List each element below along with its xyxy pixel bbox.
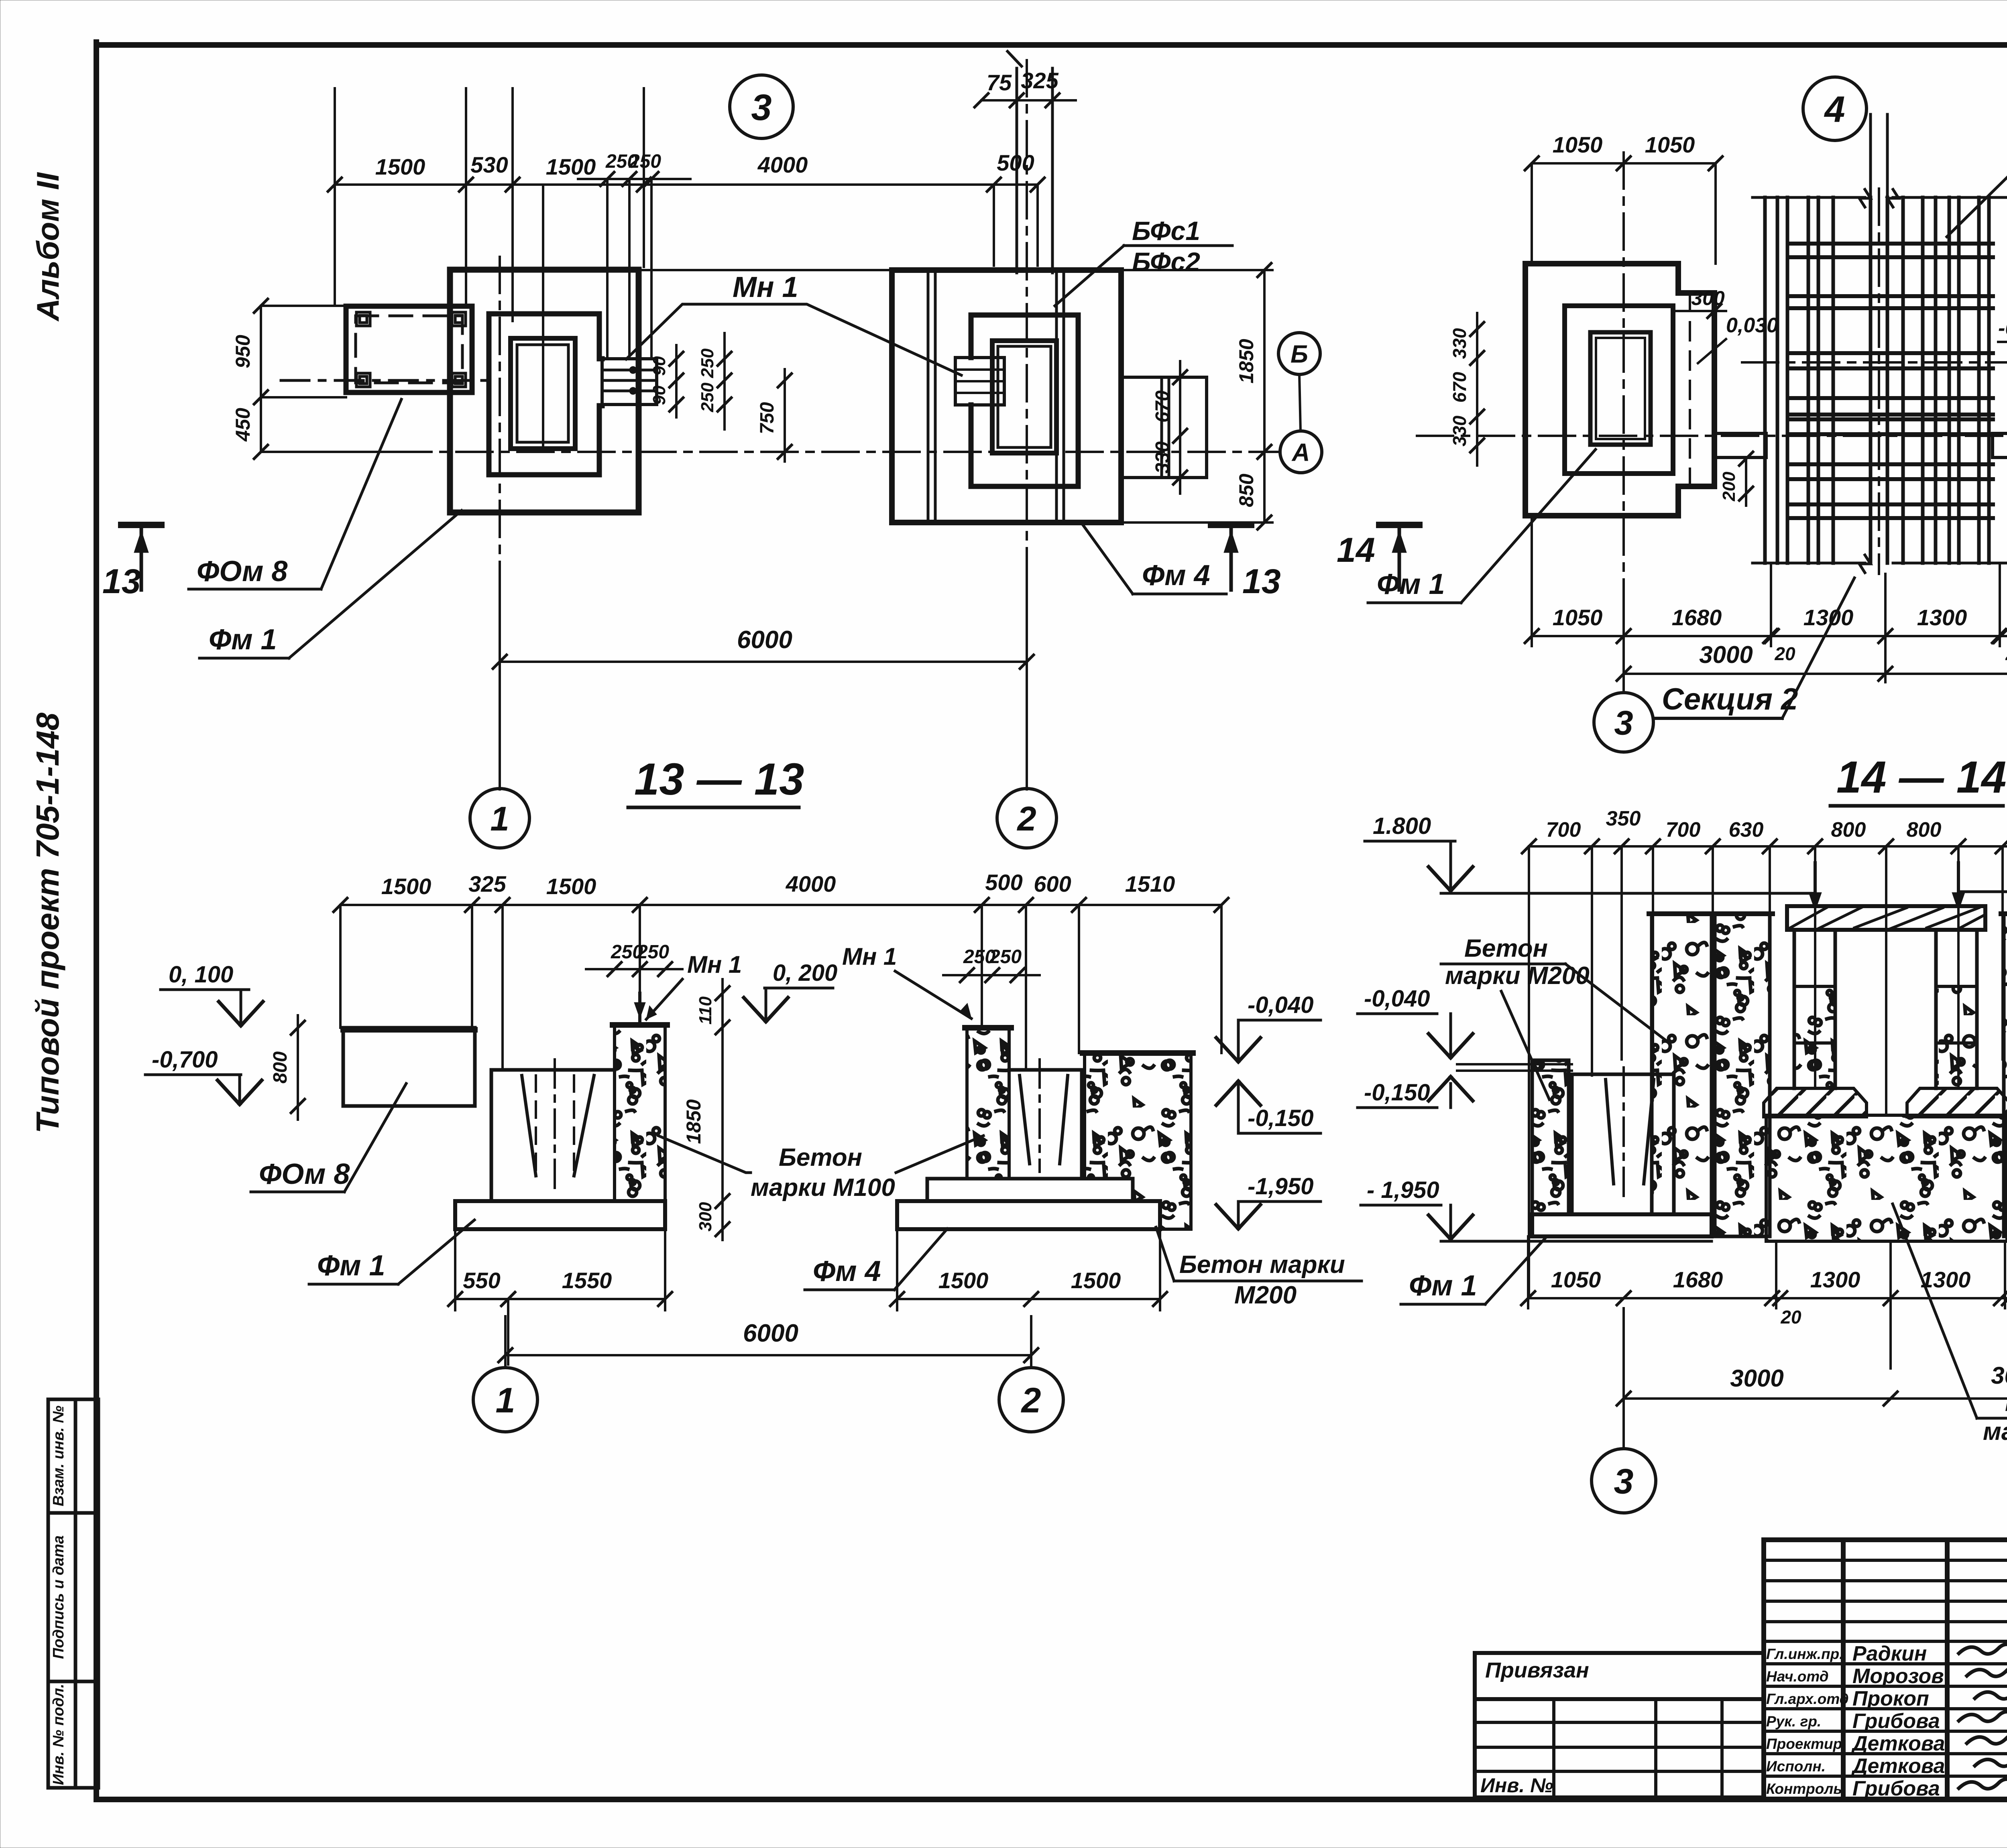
sec14 columns above pedestals bbox=[1794, 930, 1977, 1088]
sec14 -0,150 level line left bbox=[1457, 1063, 1572, 1065]
node 4 title circle bbox=[1803, 77, 1867, 140]
svg-text:3000: 3000 bbox=[1991, 1362, 2007, 1389]
svg-text:Б: Б bbox=[1291, 340, 1308, 368]
svg-text:Мн 1: Мн 1 bbox=[842, 943, 897, 970]
svg-text:Исполн.: Исполн. bbox=[1766, 1758, 1826, 1775]
svg-text:Гл.инж.пр.: Гл.инж.пр. bbox=[1766, 1646, 1844, 1662]
svg-text:800: 800 bbox=[1907, 818, 1942, 842]
node4 left foundation Fm1 outer bbox=[1525, 264, 1714, 516]
svg-text:2: 2 bbox=[1021, 1380, 1041, 1420]
svg-text:Радкин: Радкин bbox=[1852, 1642, 1927, 1665]
sec14 central M50 mass speckled bbox=[1766, 1115, 2007, 1241]
section mark 13 left bbox=[121, 522, 161, 528]
node4 axis circles 3 and 4 bbox=[1594, 693, 1653, 752]
svg-text:500: 500 bbox=[985, 870, 1022, 895]
sec13 axis circles bbox=[504, 1355, 507, 1367]
svg-text:А: А bbox=[1291, 439, 1310, 466]
svg-text:1300: 1300 bbox=[1921, 1267, 1971, 1292]
node3 bottom dim 6000 bbox=[500, 661, 1027, 663]
svg-text:Рук. гр.: Рук. гр. bbox=[1766, 1713, 1821, 1730]
node3 right vertical dims 1850/850 bbox=[639, 270, 1272, 522]
svg-text:1050: 1050 bbox=[1551, 1267, 1601, 1292]
svg-text:0, 200: 0, 200 bbox=[773, 960, 837, 986]
svg-text:Мн 1: Мн 1 bbox=[733, 271, 798, 303]
sec14 left glass bbox=[1572, 1074, 1674, 1214]
svg-text:700: 700 bbox=[1666, 818, 1701, 842]
svg-text:1300: 1300 bbox=[1810, 1267, 1860, 1292]
svg-text:Грибова: Грибова bbox=[1852, 1777, 1940, 1800]
sec14 left concrete columns M200 speckled bbox=[1652, 914, 1712, 1214]
sec14 bottom dim row bbox=[1528, 1297, 2007, 1299]
section mark 13 right bbox=[1211, 522, 1251, 528]
node3 top dimension row bbox=[335, 88, 1038, 321]
svg-text:3000: 3000 bbox=[1699, 641, 1753, 668]
svg-text:Инв. №: Инв. № bbox=[1480, 1774, 1553, 1797]
sec13 dim 800 left bbox=[297, 1015, 299, 1120]
sec14 rail symbols on beam bbox=[1814, 863, 1817, 906]
svg-text:Прокоп: Прокоп bbox=[1852, 1687, 1929, 1710]
svg-text:13: 13 bbox=[1242, 562, 1281, 601]
node3 left vertical dims 950/450 bbox=[261, 306, 397, 452]
svg-text:670: 670 bbox=[1152, 390, 1173, 423]
node 3 title circle bbox=[730, 75, 793, 138]
svg-text:530: 530 bbox=[470, 152, 508, 177]
svg-text:330: 330 bbox=[1449, 415, 1470, 446]
svg-text:0, 100: 0, 100 bbox=[169, 962, 233, 988]
sec14 extension verticals bbox=[1529, 846, 2007, 1298]
svg-text:1300: 1300 bbox=[1917, 605, 1967, 630]
svg-text:1500: 1500 bbox=[938, 1268, 989, 1293]
svg-text:300: 300 bbox=[696, 1202, 715, 1232]
Fm4 inner dims 670/330 bbox=[1179, 361, 1181, 494]
svg-text:1500: 1500 bbox=[546, 154, 596, 179]
margin stamp strip bottom-left bbox=[48, 1399, 98, 1788]
svg-text:200: 200 bbox=[2004, 469, 2007, 499]
sec13 Fm4 stepped base bbox=[927, 1179, 1133, 1201]
sec13 bottom dims bbox=[455, 1229, 1160, 1364]
svg-text:Подпись и дата: Подпись и дата bbox=[50, 1535, 67, 1659]
svg-text:Типовой проект 705-1-148: Типовой проект 705-1-148 bbox=[30, 712, 65, 1133]
anchor Mn1 connector at Fm1 bbox=[602, 359, 657, 405]
Fm4 socket bbox=[992, 341, 1056, 453]
svg-text:4: 4 bbox=[1824, 89, 1845, 130]
svg-text:800: 800 bbox=[270, 1051, 291, 1084]
svg-text:Фм 1: Фм 1 bbox=[1377, 568, 1445, 600]
node4 right connector strip bbox=[1993, 433, 2007, 457]
svg-text:1680: 1680 bbox=[1673, 1267, 1723, 1292]
sec14 pit bottom line left bbox=[1441, 1240, 1712, 1243]
svg-text:Секция 2: Секция 2 bbox=[1662, 682, 1798, 716]
svg-text:-0,040: -0,040 bbox=[1364, 986, 1430, 1012]
axis A centerline node3 bbox=[395, 451, 1278, 453]
Fm1 mid contour bbox=[489, 314, 602, 475]
svg-text:М200: М200 bbox=[1234, 1281, 1297, 1309]
dim 250/250 above anchor bbox=[578, 178, 690, 180]
dim 75/325 above column strip bbox=[981, 99, 1076, 102]
svg-text:630: 630 bbox=[1729, 818, 1764, 842]
Fm4 right extension slab bbox=[1121, 377, 1207, 478]
sec13 top dimension row bbox=[340, 904, 1221, 906]
sec13 mid vertical dims 110/1850/300 bbox=[721, 979, 724, 1240]
svg-text:1050: 1050 bbox=[1553, 605, 1603, 630]
svg-text:325: 325 bbox=[468, 871, 506, 897]
svg-text:4000: 4000 bbox=[757, 152, 808, 177]
sec13 dim 6000 bbox=[505, 1354, 1031, 1356]
Fm4 glass contour bbox=[971, 315, 1078, 486]
sec14 axis circles 3 and 4 bbox=[1592, 1449, 1656, 1513]
sec13 anchor Mn1 left (top of column) bbox=[638, 993, 641, 1025]
foundation FOm8 plan bbox=[346, 306, 472, 392]
svg-text:6000: 6000 bbox=[737, 626, 792, 654]
section mark 14 left bbox=[1379, 522, 1419, 528]
svg-text:-0,150: -0,150 bbox=[1364, 1080, 1430, 1106]
node4 left connector strip bbox=[1714, 433, 1766, 457]
svg-text:250: 250 bbox=[698, 348, 717, 378]
Fm1 socket bbox=[511, 338, 575, 449]
column strip BFs above Fm4 bbox=[1016, 68, 1018, 273]
node4 left Fm1 glass bbox=[1565, 306, 1673, 474]
svg-text:350: 350 bbox=[1606, 807, 1641, 830]
svg-text:550: 550 bbox=[463, 1268, 500, 1293]
svg-text:450: 450 bbox=[232, 408, 254, 442]
svg-text:- 1,950: - 1,950 bbox=[1367, 1177, 1439, 1203]
sec13 FOm8 block bbox=[343, 1028, 475, 1106]
sec13 Fm1 glass bbox=[491, 1070, 615, 1201]
rail track zone: sleepers bbox=[1788, 244, 1993, 518]
sec13 dim 250/250 left bbox=[586, 968, 682, 970]
svg-text:1.800: 1.800 bbox=[1373, 813, 1431, 839]
svg-text:1: 1 bbox=[496, 1380, 515, 1420]
svg-text:Морозов: Морозов bbox=[1852, 1665, 1944, 1688]
svg-text:марки М100: марки М100 bbox=[751, 1174, 895, 1202]
svg-text:3: 3 bbox=[751, 87, 771, 128]
svg-text:Фм 1: Фм 1 bbox=[1409, 1270, 1477, 1302]
svg-text:Бетон: Бетон bbox=[2005, 1389, 2007, 1417]
svg-text:14 — 14: 14 — 14 bbox=[1836, 752, 2006, 802]
svg-text:1500: 1500 bbox=[1071, 1268, 1121, 1293]
svg-text:-0,030: -0,030 bbox=[1998, 317, 2007, 340]
sec13 Fm1 base slab bbox=[455, 1201, 665, 1229]
svg-text:БФс1: БФс1 bbox=[1132, 216, 1200, 246]
sec14 ground line left bbox=[1441, 892, 1812, 895]
svg-text:Инв. № подл.: Инв. № подл. bbox=[50, 1684, 67, 1785]
svg-text:250: 250 bbox=[989, 946, 1022, 968]
svg-text:Бетон: Бетон bbox=[779, 1144, 862, 1171]
rail track zone: rails (vertical lines) bbox=[1765, 197, 1989, 563]
sec14 left foundation: speckled strip bbox=[1532, 1060, 1569, 1214]
sec14 dim row 3000/3000 bbox=[1624, 1397, 2007, 1400]
foundation Fm4 plan at axis 2 bbox=[892, 270, 1121, 522]
svg-text:850: 850 bbox=[1235, 474, 1258, 507]
svg-text:Взам. инв. №: Взам. инв. № bbox=[50, 1406, 67, 1506]
svg-text:600: 600 bbox=[1034, 871, 1071, 897]
svg-text:330: 330 bbox=[1449, 328, 1470, 359]
sec13 Fm1: concrete column M100 speckled bbox=[615, 1025, 665, 1201]
svg-text:Бетон: Бетон bbox=[1464, 935, 1548, 962]
svg-text:500: 500 bbox=[997, 150, 1034, 175]
axis 1 centerline bbox=[499, 257, 501, 578]
svg-text:700: 700 bbox=[1546, 818, 1581, 842]
axis 2 centerline bbox=[1026, 60, 1028, 578]
sec14 rail pedestals hatched bbox=[1764, 1088, 1867, 1117]
svg-text:1680: 1680 bbox=[1672, 605, 1722, 630]
svg-text:-0,040: -0,040 bbox=[1248, 992, 1313, 1018]
sec14 top dim row bbox=[1529, 845, 2007, 848]
svg-text:250: 250 bbox=[629, 151, 661, 172]
svg-text:750: 750 bbox=[757, 402, 778, 434]
svg-text:1050: 1050 bbox=[1645, 132, 1695, 157]
svg-text:2: 2 bbox=[1016, 800, 1036, 838]
svg-text:1500: 1500 bbox=[381, 874, 432, 899]
svg-text:3: 3 bbox=[1614, 1462, 1634, 1501]
axis A centerline node4 bbox=[1417, 435, 2007, 437]
svg-text:Фм 1: Фм 1 bbox=[209, 624, 277, 656]
sec13 Fm4 glass bbox=[1009, 1070, 1082, 1179]
node4 bottom dim row bbox=[1532, 635, 2007, 637]
title block row lines bbox=[1764, 1560, 2007, 1776]
sec13 concrete block M200 speckled bbox=[1085, 1053, 1191, 1229]
svg-text:325: 325 bbox=[1021, 68, 1058, 93]
svg-text:0,030: 0,030 bbox=[1726, 314, 1778, 337]
sec13 dim 250/250 right bbox=[943, 974, 1040, 976]
anchor Mn1 connector at Fm4 bbox=[955, 358, 1004, 405]
svg-text:Фм 4: Фм 4 bbox=[813, 1255, 881, 1287]
sec14 right concrete columns M200 speckled bbox=[2004, 914, 2007, 1236]
svg-text:20: 20 bbox=[1774, 643, 1795, 664]
svg-text:4000: 4000 bbox=[786, 871, 836, 897]
small dims at anchor right: 90/90/250/250/750 bbox=[676, 333, 785, 461]
axis 3 centerline bbox=[1622, 152, 1625, 602]
svg-text:90: 90 bbox=[649, 385, 669, 405]
svg-text:1050: 1050 bbox=[1553, 132, 1603, 157]
svg-text:950: 950 bbox=[232, 335, 254, 368]
svg-text:6000: 6000 bbox=[743, 1319, 798, 1347]
svg-text:20: 20 bbox=[1780, 1307, 1801, 1328]
svg-text:13 — 13: 13 — 13 bbox=[634, 754, 804, 804]
title block left extension (Privyazan) bbox=[1475, 1653, 1764, 1797]
svg-text:Деткова: Деткова bbox=[1851, 1732, 1945, 1755]
foundation Fm1 plan at axis 1: outer contour bbox=[450, 270, 639, 512]
svg-text:13: 13 bbox=[102, 562, 141, 601]
node4 top dims left 1050/1050 bbox=[1532, 162, 1716, 165]
svg-text:Нач.отд: Нач.отд bbox=[1766, 1668, 1829, 1685]
svg-text:Проектир: Проектир bbox=[1766, 1736, 1842, 1752]
svg-text:Привязан: Привязан bbox=[1485, 1658, 1589, 1682]
svg-text:Мн 1: Мн 1 bbox=[687, 951, 742, 978]
svg-text:1500: 1500 bbox=[546, 874, 596, 899]
svg-text:Бетон марки: Бетон марки bbox=[1179, 1251, 1345, 1279]
svg-text:14: 14 bbox=[1337, 531, 1375, 569]
svg-text:-1,950: -1,950 bbox=[1248, 1173, 1313, 1199]
rail track zone: boundaries bbox=[1753, 189, 2007, 573]
svg-text:90: 90 bbox=[649, 356, 669, 376]
svg-text:1550: 1550 bbox=[562, 1268, 612, 1293]
svg-text:3: 3 bbox=[1614, 704, 1633, 742]
svg-text:3000: 3000 bbox=[1730, 1365, 1783, 1392]
svg-text:Фм 1: Фм 1 bbox=[317, 1250, 385, 1282]
svg-text:20: 20 bbox=[2005, 643, 2007, 664]
svg-text:1510: 1510 bbox=[1125, 871, 1175, 897]
svg-text:250: 250 bbox=[698, 382, 717, 413]
svg-text:1850: 1850 bbox=[1235, 339, 1258, 383]
svg-text:Контроль: Контроль bbox=[1766, 1781, 1842, 1797]
svg-text:670: 670 bbox=[1449, 372, 1470, 403]
axis letter circles B and A node3 bbox=[1278, 333, 1320, 374]
svg-text:Гл.арх.отд: Гл.арх.отд bbox=[1766, 1691, 1849, 1707]
sec14 left base slab bbox=[1532, 1214, 1712, 1236]
sec13 Fm4: anchor column speckled bbox=[967, 1028, 1009, 1179]
svg-text:330: 330 bbox=[1152, 441, 1173, 474]
svg-text:110: 110 bbox=[696, 996, 715, 1025]
svg-text:1: 1 bbox=[490, 800, 509, 838]
svg-text:ФОм 8: ФОм 8 bbox=[197, 555, 287, 588]
svg-text:Фм 4: Фм 4 bbox=[1142, 559, 1210, 592]
svg-text:ФОм 8: ФОм 8 bbox=[259, 1158, 350, 1190]
svg-text:1850: 1850 bbox=[682, 1099, 705, 1144]
axis circles 1 and 2 bbox=[470, 789, 529, 848]
svg-text:Грибова: Грибова bbox=[1852, 1710, 1940, 1733]
svg-text:1500: 1500 bbox=[375, 154, 425, 179]
svg-text:-0,150: -0,150 bbox=[1248, 1105, 1313, 1131]
title block main frame bbox=[1764, 1540, 2007, 1799]
svg-text:Альбом II: Альбом II bbox=[30, 172, 65, 322]
svg-text:800: 800 bbox=[1831, 818, 1866, 842]
rail zone centerline bbox=[1742, 361, 2007, 364]
svg-text:250: 250 bbox=[637, 941, 669, 963]
svg-text:75: 75 bbox=[987, 70, 1012, 95]
svg-text:-0,700: -0,700 bbox=[152, 1047, 218, 1073]
node4 left vertical dims 330/670/330 bbox=[1476, 313, 1478, 466]
node4 dim row 3000/3000 bbox=[1624, 673, 2007, 675]
svg-text:200: 200 bbox=[1719, 472, 1739, 502]
svg-text:марки М50: марки М50 bbox=[1983, 1418, 2007, 1445]
svg-text:БФс2: БФс2 bbox=[1132, 247, 1200, 276]
sec14 crane beam hatched bbox=[1787, 906, 1985, 930]
svg-text:Деткова: Деткова bbox=[1851, 1754, 1945, 1778]
